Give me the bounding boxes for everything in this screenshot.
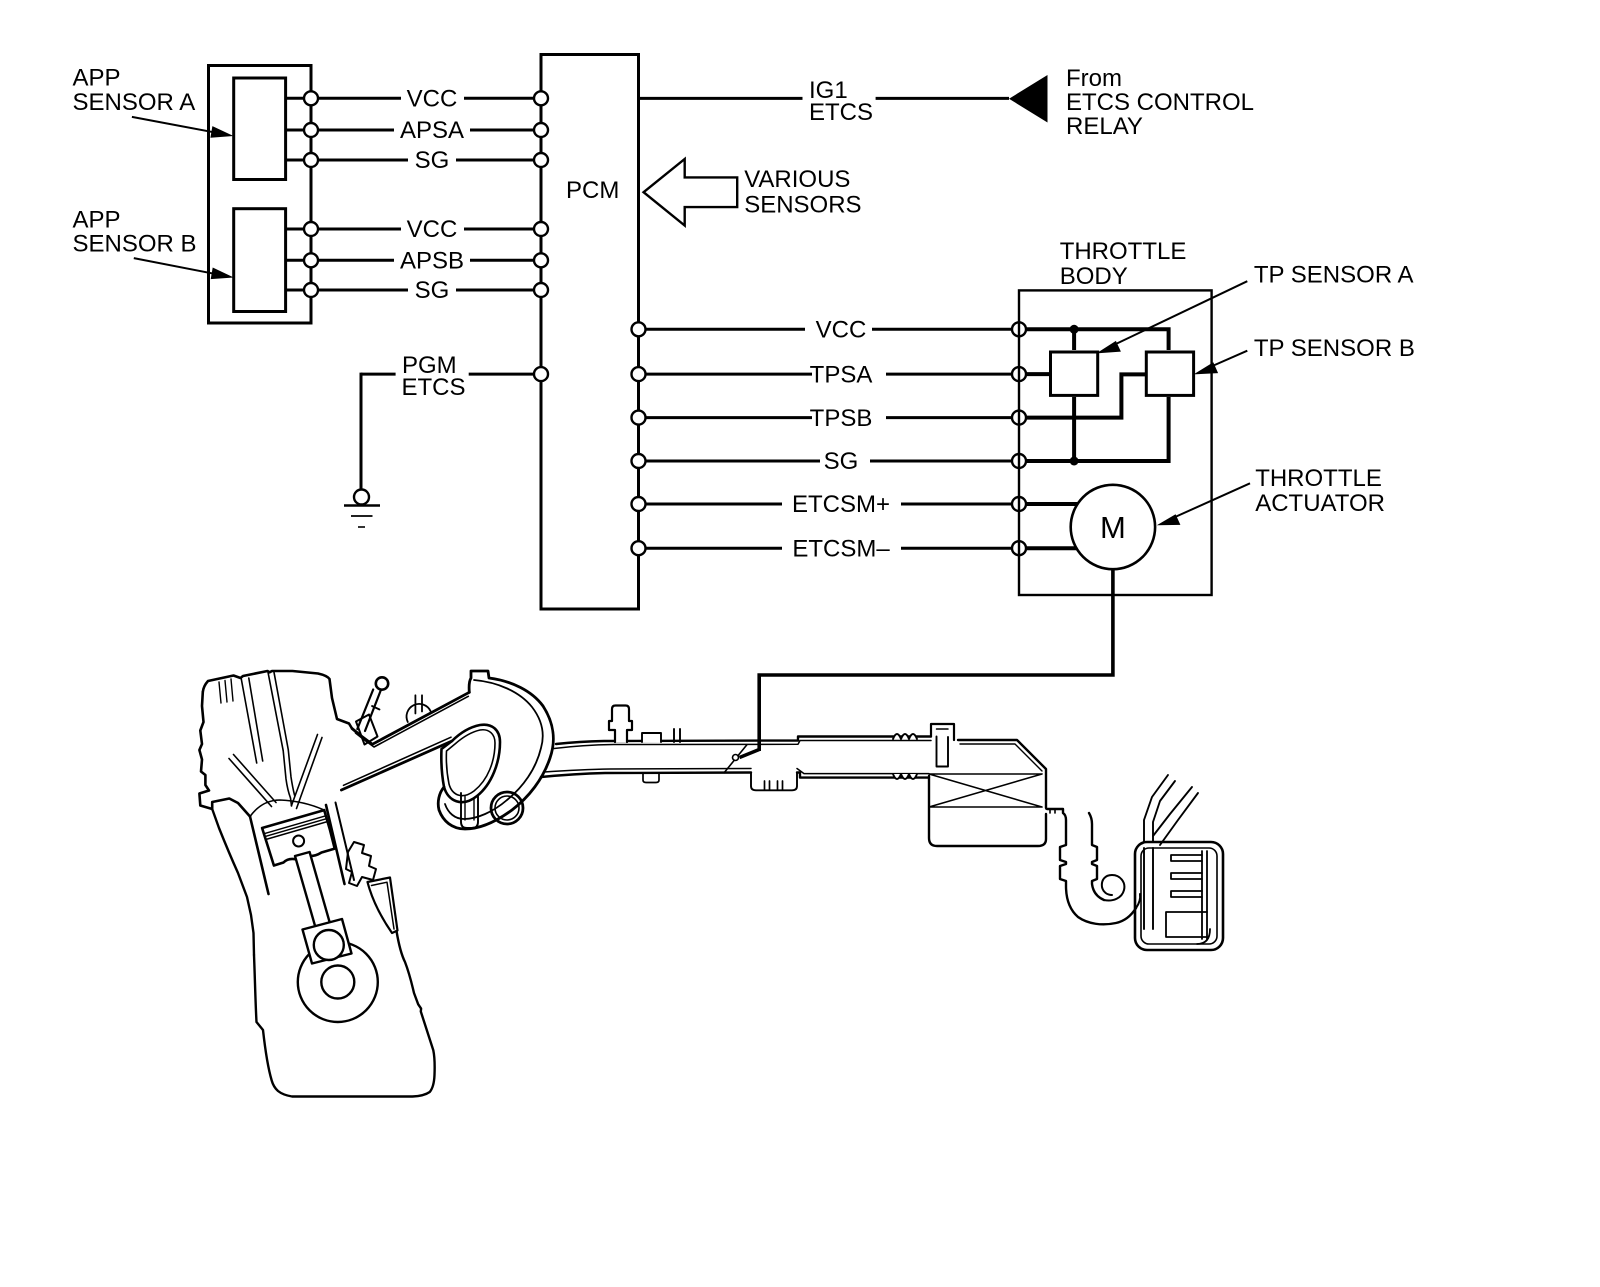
wire VCC (sensor A row 1) (286, 86, 534, 113)
ground wire vertical (360, 373, 363, 490)
mount bracket (346, 842, 376, 886)
svg-text:TP SENSOR B: TP SENSOR B (1254, 335, 1415, 362)
TP sensor A square (1051, 352, 1098, 395)
TB internal wire TPSB (1026, 374, 1146, 417)
svg-text:ETCSM–: ETCSM– (792, 535, 890, 562)
gusset (368, 878, 398, 934)
plenum bottom channel (461, 793, 478, 828)
pin circles sensor box edge (304, 91, 318, 297)
label APP SENSOR B (73, 207, 197, 258)
wire dot to TP sensor A top (1072, 329, 1076, 350)
wire APSB (sensor B row 2) (286, 248, 534, 275)
wire IG1 ETCS (639, 77, 1010, 126)
label THROTTLE BODY (1060, 238, 1187, 290)
s-duct outer left wall (1047, 809, 1136, 924)
label THROTTLE ACTUATOR (1255, 465, 1385, 517)
svg-text:SG: SG (824, 448, 859, 475)
wire SG (sensor A row 3) (286, 147, 534, 174)
relay triangle (1009, 75, 1048, 123)
inlet prong left (1144, 775, 1175, 842)
svg-text:SG: SG (415, 277, 450, 304)
PCM box (541, 55, 639, 610)
cover left edge and head left side (199, 692, 250, 817)
plenum curl inner (445, 680, 543, 819)
label APP SENSOR A (73, 65, 196, 116)
plenum cavity inner (446, 730, 495, 796)
crank journal (321, 966, 354, 999)
intake duct top wall (556, 737, 931, 745)
block left lower edge (212, 809, 254, 955)
throttle body box (1019, 290, 1212, 595)
svg-text:SG: SG (415, 147, 450, 174)
runner lower wall (341, 741, 452, 790)
TB internal wire ETCSM- (1026, 546, 1078, 550)
intake valve stem (229, 755, 276, 807)
svg-text:THROTTLE: THROTTLE (1255, 465, 1382, 492)
valve cover outline (203, 671, 352, 729)
leader arrow throttle actuator (1157, 483, 1250, 525)
injector boss (609, 706, 632, 743)
leader arrow TP sensor B (1194, 351, 1248, 375)
resonator lower chamber (1166, 912, 1210, 944)
svg-text:ACTUATOR: ACTUATOR (1255, 490, 1385, 517)
svg-text:ETCSM+: ETCSM+ (792, 491, 890, 518)
s-duct inner right wall (1089, 813, 1104, 900)
svg-text:TP SENSOR A: TP SENSOR A (1254, 262, 1414, 289)
exhaust valve stem (292, 735, 323, 809)
dipstick rod (357, 690, 380, 732)
runner bump (407, 704, 431, 722)
runner upper wall (352, 692, 469, 744)
s-duct hook (1102, 875, 1125, 901)
crank circle (298, 942, 378, 1022)
pin circles throttle body left edge (1012, 322, 1026, 555)
resonator fin spine (1202, 851, 1207, 939)
label VARIOUS SENSORS (744, 166, 861, 218)
svg-text:VARIOUS: VARIOUS (744, 166, 850, 193)
svg-text:SENSORS: SENSORS (744, 191, 861, 218)
junction dot VCC (1070, 325, 1079, 334)
svg-text:APSB: APSB (400, 248, 464, 275)
wire APSA (sensor A row 2) (286, 117, 534, 144)
wire PGM ETCS (361, 352, 534, 401)
wire VCC (sensor B row 1) (286, 216, 534, 243)
chamber arc (250, 800, 324, 817)
wire TPSB (throttle row 3) (646, 405, 1013, 432)
plenum curl outer (438, 671, 553, 829)
oil pan outline (254, 931, 435, 1097)
duct bump (642, 733, 661, 742)
wire M to engine (759, 569, 1113, 751)
piston rings (264, 816, 328, 840)
runner ticks (415, 695, 422, 713)
rod big end (303, 919, 352, 964)
svg-text:RELAY: RELAY (1066, 113, 1143, 140)
TB internal wire TPSA (1026, 372, 1051, 376)
wire SG (throttle row 4) (646, 448, 1013, 475)
injector tip (283, 750, 294, 806)
svg-text:SENSOR A: SENSOR A (73, 89, 196, 116)
piston pin (293, 836, 304, 847)
engine cross-section art (199, 671, 1223, 1097)
TP sensor A bottom pin (1072, 397, 1076, 461)
wire ETCSM+ (throttle row 5) (646, 491, 1013, 518)
duct bottom notch (751, 773, 797, 791)
resonator box (1135, 842, 1223, 950)
connecting rod (295, 852, 331, 931)
svg-text:PCM: PCM (566, 177, 619, 204)
pin circles PCM left edge (534, 91, 548, 381)
cover interior lines (219, 679, 233, 703)
cylinder walls (250, 805, 345, 894)
pin circles PCM right edge (632, 322, 646, 555)
svg-text:VCC: VCC (407, 86, 458, 113)
air filter box with X (929, 774, 1042, 807)
svg-text:APSA: APSA (400, 117, 464, 144)
TP sensor B square (1146, 352, 1193, 395)
APP sensor B inner box (234, 209, 286, 312)
ground symbol (344, 490, 380, 528)
svg-text:M: M (1100, 510, 1126, 545)
air cleaner left and bottom (929, 776, 1046, 846)
cable end ball (733, 755, 739, 761)
cover slot 2 (268, 671, 289, 751)
dipstick knob (376, 677, 388, 689)
duct bellows top (893, 734, 917, 739)
air cleaner top housing (958, 740, 1046, 808)
cover slot 1 (241, 678, 262, 763)
plenum cavity outer (441, 725, 500, 802)
duct ticks (674, 729, 680, 742)
svg-text:ETCS: ETCS (402, 374, 466, 401)
svg-text:TPSA: TPSA (810, 361, 873, 388)
throttle cable rod (724, 744, 748, 773)
leader arrow to sensor A (132, 117, 234, 138)
svg-text:SENSOR B: SENSOR B (73, 230, 197, 257)
svg-text:ETCS CONTROL: ETCS CONTROL (1066, 89, 1254, 116)
throttle bore circle (491, 792, 523, 824)
APP sensor A inner box (234, 78, 286, 180)
svg-text:From: From (1066, 65, 1122, 92)
cable end bend (740, 750, 760, 758)
svg-text:THROTTLE: THROTTLE (1060, 238, 1187, 265)
s-duct to resonator join (1136, 894, 1140, 908)
throttle actuator M circle (1071, 485, 1155, 569)
leader arrow to sensor B (134, 258, 234, 279)
wire ETCSM- (throttle row 6) (646, 535, 1013, 562)
piston (262, 810, 335, 865)
air temp sensor plug (931, 724, 954, 740)
TB internal wire ETCSM+ (1026, 502, 1079, 506)
APP sensor assembly outer box (209, 66, 312, 324)
svg-text:TPSB: TPSB (810, 405, 873, 432)
wire TPSA (throttle row 2) (646, 361, 1013, 388)
junction dot SG (1070, 457, 1079, 466)
svg-text:APP: APP (73, 65, 121, 92)
VARIOUS SENSORS arrow (644, 159, 738, 226)
resonator inlet tube (1144, 848, 1153, 929)
svg-text:VCC: VCC (407, 216, 458, 243)
wire SG (sensor B row 3) (286, 277, 534, 304)
inlet prong right (1153, 787, 1198, 845)
TB internal wire VCC (1026, 329, 1169, 350)
svg-text:BODY: BODY (1060, 263, 1128, 290)
svg-text:VCC: VCC (816, 317, 867, 344)
duct bellows bottom (893, 774, 917, 779)
wire VCC (throttle row 1) (646, 317, 1013, 344)
svg-text:ETCS: ETCS (809, 99, 873, 126)
TB internal wire SG (1026, 397, 1169, 461)
intake duct bottom wall (541, 773, 929, 778)
resonator fins (1171, 855, 1202, 897)
duct bottom tab (643, 774, 659, 783)
label From ETCS CONTROL RELAY (1066, 65, 1254, 140)
ac outlet ledge (1046, 809, 1063, 813)
dipstick tube base (356, 715, 378, 745)
leader arrow TP sensor A (1096, 281, 1247, 353)
